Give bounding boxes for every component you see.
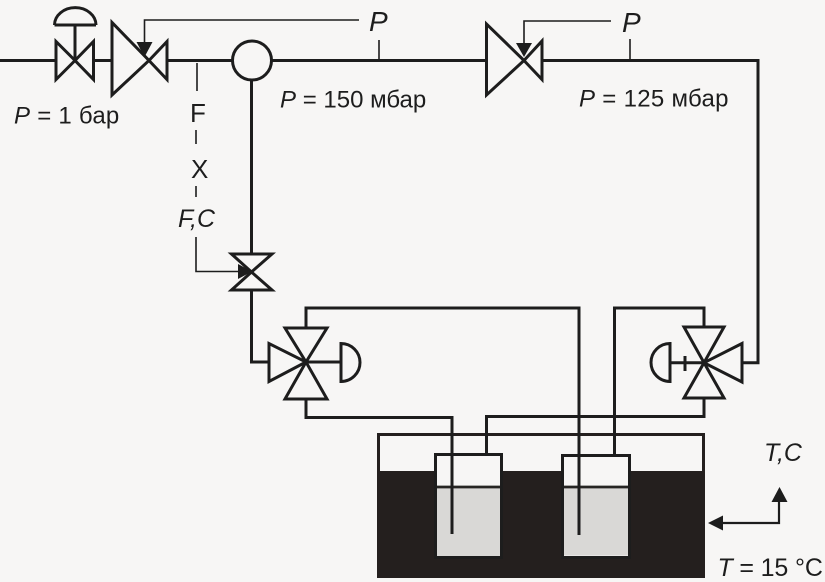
svg-text:F,C: F,C	[178, 205, 216, 233]
dashed link 2	[195, 186, 197, 197]
control signal arrowhead	[238, 264, 252, 279]
svg-text:T = 15 °C: T = 15 °C	[718, 554, 823, 582]
cup1 rim tube	[485, 433, 488, 453]
main gas pipe	[0, 61, 758, 363]
pipe left 3-way valve bottom to cup1 deep tube	[306, 399, 452, 534]
svg-text:P = 150 мбар: P = 150 мбар	[280, 87, 426, 114]
T,C measurement arrow	[722, 501, 779, 523]
PR1 sensing line	[145, 20, 360, 43]
pipe from control valve to left 3-way valve	[252, 290, 270, 362]
left 3-way valve actuator semicircle	[341, 344, 360, 382]
PR2 pressure tap	[629, 39, 631, 59]
thermostat bath tank black fluid	[377, 471, 705, 578]
control valve CV (vertical)	[232, 254, 273, 290]
svg-text:F: F	[190, 98, 206, 128]
pressure regulator PR1 body	[112, 23, 167, 96]
flow meter circle	[233, 41, 272, 80]
svg-text:P = 1 бар: P = 1 бар	[14, 103, 120, 130]
cup 1	[436, 455, 502, 558]
arrowhead up to T,C	[772, 487, 788, 502]
arrowhead into tank	[708, 516, 723, 531]
right 3-way valve actuator semicircle	[651, 344, 670, 382]
pressure regulator PR1 actuator triangle	[137, 42, 153, 57]
tank outline	[379, 435, 704, 577]
PR1 pressure tap P	[378, 40, 380, 59]
pipe right 3-way valve bottom to cup1 rim tube	[487, 398, 705, 453]
PR2 sensing line	[524, 21, 611, 44]
dashed link 1	[195, 130, 197, 144]
right 3-way valve stem tick	[684, 356, 687, 371]
hand valve HV1 actuator dome	[55, 8, 97, 61]
pressure regulator PR2 actuator triangle	[516, 43, 532, 57]
cup 2	[563, 456, 630, 558]
right 3-way valve actuator stem	[670, 361, 704, 364]
pipe from meter down to control valve	[250, 61, 253, 255]
hand valve HV1 body	[56, 42, 94, 80]
svg-text:X: X	[191, 154, 208, 184]
svg-text:T,C: T,C	[764, 439, 803, 467]
pipe right 3-way valve top to cup2 rim tube	[615, 308, 705, 454]
svg-text:P = 125 мбар: P = 125 мбар	[579, 86, 729, 113]
right 3-way valve body	[684, 327, 742, 398]
left 3-way valve body	[269, 328, 327, 399]
pipe left 3-way valve top to cup2 deep tube	[306, 308, 579, 535]
cup2 deep tube	[578, 433, 581, 535]
left 3-way valve actuator stem	[306, 361, 341, 364]
svg-text:P: P	[622, 7, 641, 38]
svg-text:P: P	[369, 6, 388, 37]
pressure regulator PR2 body	[487, 24, 543, 95]
flow tap tick F	[196, 63, 198, 91]
control signal line to valve	[196, 237, 238, 272]
cup2 rim tube	[613, 433, 616, 454]
cup1 deep tube	[451, 433, 454, 534]
